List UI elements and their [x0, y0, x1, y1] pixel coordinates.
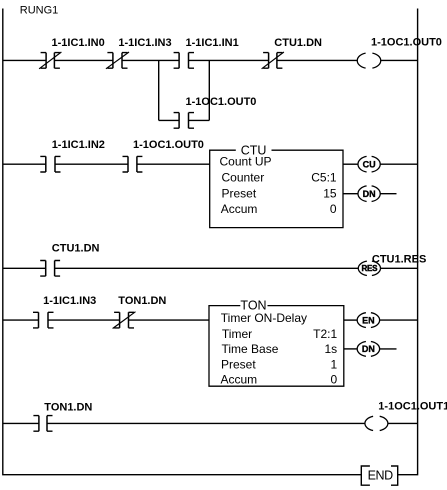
wire rung5 seg3 [388, 422, 418, 424]
branch right vertical [208, 60, 210, 120]
left power rail [3, 9, 362, 475]
svg-text:CTU1.RES: CTU1.RES [372, 253, 426, 265]
svg-text:CTU1.DN: CTU1.DN [274, 37, 322, 49]
END instruction box [361, 466, 397, 485]
branch wire right [189, 119, 210, 121]
wire TON to EN [344, 319, 357, 321]
wire rung1 seg5 [277, 59, 358, 61]
wire EN to rail [380, 319, 418, 321]
output DN (TON) [357, 342, 366, 357]
svg-text:1-1IC1.IN0: 1-1IC1.IN0 [52, 37, 105, 49]
right power rail [398, 9, 418, 475]
svg-text:Counter: Counter [222, 171, 265, 185]
svg-text:DN: DN [362, 344, 375, 354]
svg-text:RES: RES [361, 264, 378, 273]
svg-text:END: END [368, 469, 394, 483]
wire DN stub [380, 193, 396, 195]
contact CTU1.DN (NC) [262, 52, 284, 69]
svg-text:1-1OC1.OUT0: 1-1OC1.OUT0 [371, 36, 442, 48]
svg-text:EN: EN [362, 315, 375, 325]
contact 1-1OC1.OUT0 rung2 (NO) [123, 156, 143, 172]
svg-text:Preset: Preset [221, 357, 256, 371]
svg-text:RUNG1: RUNG1 [20, 4, 59, 16]
svg-text:TON1.DN: TON1.DN [118, 295, 166, 307]
svg-text:1-1OC1.OUT0: 1-1OC1.OUT0 [186, 96, 257, 108]
wire rung5 seg1 [3, 422, 39, 424]
coil CTU1.RES [358, 261, 367, 275]
svg-text:1: 1 [331, 357, 338, 371]
output EN [357, 313, 366, 328]
contact 1-1OC1.OUT0 branch (NO) [174, 113, 194, 129]
contact CTU1.DN rung3 (NO) [40, 261, 60, 277]
svg-text:Time Base: Time Base [222, 342, 279, 356]
svg-text:C5:1: C5:1 [311, 171, 337, 185]
svg-text:Timer ON-Delay: Timer ON-Delay [221, 311, 307, 325]
coil 1-1OC1.OUT0 [357, 53, 365, 68]
wire rung1 seg2 [54, 59, 113, 61]
wire CTU to DN [343, 193, 358, 195]
svg-text:CU: CU [363, 159, 376, 169]
svg-text:1-1IC1.IN2: 1-1IC1.IN2 [52, 139, 105, 151]
TON function block box [209, 306, 344, 387]
wire rung3 seg3 [381, 267, 418, 269]
wire rung4 seg2 [48, 319, 120, 321]
svg-text:Accum: Accum [221, 372, 258, 386]
CTU function block box [210, 150, 343, 227]
svg-text:CTU1.DN: CTU1.DN [52, 243, 100, 255]
wire CTU to CU [343, 163, 358, 165]
wire rung4 seg3 [129, 319, 210, 321]
wire TON DN stub [380, 348, 397, 350]
contact 1-1IC1.IN2 (NO) [40, 156, 60, 172]
svg-text:TON1.DN: TON1.DN [44, 402, 92, 414]
svg-text:0: 0 [331, 372, 338, 386]
svg-text:1-1IC1.IN3: 1-1IC1.IN3 [118, 37, 171, 49]
wire rung1 seg4 [189, 59, 269, 61]
svg-text:1-1IC1.IN1: 1-1IC1.IN1 [186, 37, 239, 49]
svg-text:1-1OC1.OUT0: 1-1OC1.OUT0 [133, 139, 204, 151]
contact TON1.DN rung4 (NC) [113, 312, 136, 329]
contact 1-1IC1.IN3 (NC) [106, 52, 129, 69]
svg-text:1s: 1s [325, 342, 338, 356]
wire rung4 seg1 [3, 319, 39, 321]
branch left vertical [158, 60, 160, 120]
contact TON1.DN rung5 (NO) [33, 416, 52, 432]
wire rung2 seg3 [137, 163, 210, 165]
svg-text:Accum: Accum [221, 202, 258, 216]
svg-text:Count UP: Count UP [220, 154, 272, 168]
contact 1-1IC1.IN1 (NO) [174, 53, 194, 69]
svg-text:Timer: Timer [222, 327, 252, 341]
svg-text:1-1OC1.OUT1: 1-1OC1.OUT1 [378, 400, 447, 412]
svg-text:T2:1: T2:1 [313, 327, 337, 341]
wire rung5 seg2 [47, 422, 365, 424]
svg-text:0: 0 [330, 202, 337, 216]
wire rung3 seg2 [55, 267, 359, 269]
contact 1-1IC1.IN3 rung4 (NO) [33, 312, 54, 328]
output DN (CTU) [358, 186, 367, 202]
wire rung1 seg1 [3, 59, 46, 61]
wire rung1 seg6 [380, 59, 417, 61]
svg-text:1-1IC1.IN3: 1-1IC1.IN3 [43, 295, 96, 307]
svg-text:Preset: Preset [222, 186, 257, 200]
svg-text:DN: DN [363, 189, 376, 199]
wire rung2 seg2 [55, 163, 128, 165]
wire rung3 seg1 [3, 267, 46, 269]
coil 1-1OC1.OUT1 [365, 416, 373, 430]
wire CU to rail [380, 163, 417, 165]
wire TON to DN [344, 348, 357, 350]
contact 1-1IC1.IN0 (NC) [39, 52, 61, 69]
wire rung2 seg1 [3, 163, 46, 165]
svg-text:15: 15 [323, 186, 337, 200]
branch wire left [159, 119, 179, 121]
output CU [358, 156, 367, 172]
wire rung1 seg3 [122, 59, 179, 61]
